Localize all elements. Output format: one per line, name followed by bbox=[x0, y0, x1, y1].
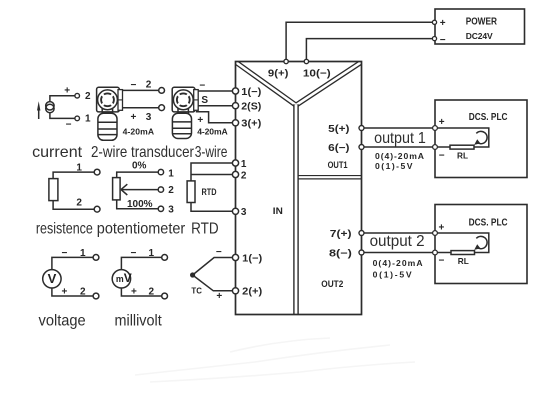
svg-text:+: + bbox=[439, 223, 445, 234]
svg-text:0%: 0% bbox=[132, 160, 147, 171]
svg-text:100%: 100% bbox=[127, 199, 153, 210]
svg-text:+: + bbox=[64, 85, 70, 96]
terminal 5(+) right edge bbox=[359, 126, 364, 131]
svg-text:1: 1 bbox=[241, 159, 247, 170]
svg-text:TC: TC bbox=[191, 285, 202, 295]
junction dot bbox=[190, 272, 195, 277]
terminal 3 bbox=[232, 208, 238, 214]
svg-text:4-20mA: 4-20mA bbox=[123, 127, 155, 137]
wire 8(-) to DCS2 bbox=[362, 252, 436, 254]
svg-text:RTD: RTD bbox=[202, 187, 217, 197]
terminal 1(-) top bbox=[232, 88, 238, 94]
wire V1 top bbox=[52, 257, 93, 269]
svg-text:output 2: output 2 bbox=[370, 233, 425, 250]
svg-text:IN: IN bbox=[273, 206, 283, 217]
wire TC to 1(-) bbox=[193, 258, 236, 276]
svg-text:+: + bbox=[216, 291, 222, 302]
transducer T2 (3-wire) bbox=[172, 87, 235, 138]
svg-text:output 1: output 1 bbox=[374, 130, 426, 147]
terminal 1 of mV1 bbox=[162, 255, 168, 261]
wire 9(+) to power + bbox=[286, 22, 433, 61]
terminal 2(S) bbox=[232, 103, 238, 109]
svg-text:+: + bbox=[440, 18, 446, 29]
terminal 2 of mV1 bbox=[162, 293, 168, 299]
svg-text:1: 1 bbox=[80, 248, 86, 259]
terminal 10(-) top edge bbox=[304, 59, 308, 63]
svg-text:0(4)-20mA: 0(4)-20mA bbox=[375, 151, 424, 161]
current direction arrow DCS2 bbox=[476, 236, 487, 248]
svg-text:+: + bbox=[131, 286, 137, 297]
current source CS1 bbox=[37, 93, 79, 120]
terminal 7(+) right edge bbox=[359, 231, 364, 236]
svg-text:3: 3 bbox=[168, 205, 174, 216]
wire RTD to terminal 2 bbox=[191, 174, 236, 176]
load loop wire in DCS1 bbox=[435, 128, 489, 147]
terminal + DCS2 bbox=[433, 231, 438, 236]
svg-text:RL: RL bbox=[457, 151, 468, 161]
wire 6(-) to DCS1 bbox=[362, 146, 436, 148]
svg-text:1: 1 bbox=[149, 248, 155, 259]
terminal block of T1 bbox=[118, 90, 123, 111]
svg-text:3: 3 bbox=[146, 112, 152, 123]
svg-text:1: 1 bbox=[85, 113, 91, 124]
svg-text:0(4)-20mA: 0(4)-20mA bbox=[373, 258, 423, 268]
terminal 1 of CS1 bbox=[75, 116, 80, 121]
svg-text:2: 2 bbox=[168, 185, 174, 196]
wire CS1 bottom bbox=[50, 113, 75, 119]
wire T2 to 1(-) bbox=[198, 90, 235, 92]
body square bbox=[172, 87, 195, 112]
svg-text:1: 1 bbox=[76, 163, 82, 174]
terminal 2 of V1 bbox=[93, 293, 99, 299]
svg-text:7(+): 7(+) bbox=[330, 229, 352, 240]
body square bbox=[97, 87, 120, 112]
wire 7(+) to DCS2 bbox=[362, 232, 436, 234]
wire T1 bottom bbox=[123, 107, 159, 109]
inner ring bbox=[101, 93, 114, 106]
svg-text:RTD: RTD bbox=[191, 221, 219, 238]
svg-text:DC24V: DC24V bbox=[466, 31, 493, 41]
svg-text:6(−): 6(−) bbox=[328, 143, 349, 154]
wire T1 top bbox=[123, 89, 159, 91]
svg-text:DCS. PLC: DCS. PLC bbox=[469, 112, 508, 123]
svg-text:1(−): 1(−) bbox=[242, 253, 262, 264]
wire 5(+) to DCS1 bbox=[362, 127, 436, 129]
wire R1 bottom bbox=[53, 201, 94, 210]
svg-text:+: + bbox=[439, 117, 445, 128]
svg-text:9(+): 9(+) bbox=[268, 68, 289, 79]
svg-text:2: 2 bbox=[241, 170, 247, 181]
svg-text:−: − bbox=[131, 248, 137, 259]
head circle bbox=[98, 90, 118, 110]
terminal 1 of V1 bbox=[93, 255, 99, 261]
svg-text:0(1)-5V: 0(1)-5V bbox=[373, 270, 412, 280]
svg-text:+: + bbox=[62, 286, 68, 297]
V divider inside isolator bbox=[233, 60, 364, 105]
svg-text:2: 2 bbox=[85, 91, 91, 102]
svg-text:−: − bbox=[62, 248, 68, 259]
terminal 1 of RP1 bbox=[158, 169, 163, 174]
svg-text:2: 2 bbox=[149, 286, 155, 297]
svg-text:DCS. PLC: DCS. PLC bbox=[469, 218, 508, 229]
terminal 8(-) right edge bbox=[359, 250, 364, 255]
svg-text:OUT2: OUT2 bbox=[321, 279, 343, 290]
svg-text:4-20mA: 4-20mA bbox=[197, 127, 228, 137]
current source circles bbox=[46, 102, 54, 110]
terminal - DCS2 bbox=[433, 250, 438, 255]
svg-text:RL: RL bbox=[458, 256, 469, 266]
terminal + DCS1 bbox=[433, 126, 438, 131]
transducer T1 (2-wire) bbox=[97, 87, 165, 140]
neck bbox=[178, 108, 188, 113]
terminal 1 of R1 bbox=[94, 169, 100, 175]
svg-text:voltage: voltage bbox=[39, 313, 86, 330]
isolator outline bbox=[236, 62, 362, 315]
terminal 9(+) top edge bbox=[284, 59, 288, 63]
wire T2 to 3(+) bbox=[196, 112, 236, 123]
terminal 6(-) right edge bbox=[359, 145, 364, 150]
arrow of current source bbox=[38, 109, 40, 119]
svg-text:−: − bbox=[66, 120, 72, 131]
svg-text:resistence: resistence bbox=[36, 221, 93, 238]
wiper arrow bbox=[121, 189, 158, 191]
terminal 2(+) bottom bbox=[232, 288, 238, 294]
load loop wire in DCS2 bbox=[435, 233, 489, 253]
svg-text:−: − bbox=[131, 80, 137, 91]
terminal 2 of RP1 bbox=[158, 187, 163, 192]
faint watermark remnants bbox=[135, 338, 415, 382]
svg-text:+: + bbox=[197, 115, 203, 126]
sensor capsule bbox=[172, 113, 191, 138]
voltmeter V1 bbox=[43, 255, 99, 299]
svg-text:S: S bbox=[201, 95, 208, 106]
svg-text:2(S): 2(S) bbox=[241, 102, 261, 113]
wire V1 bottom bbox=[52, 288, 93, 296]
svg-text:5(+): 5(+) bbox=[328, 124, 349, 135]
svg-text:−: − bbox=[216, 247, 222, 258]
svg-text:V: V bbox=[48, 271, 57, 286]
power supply box bbox=[435, 9, 525, 44]
terminal 1(-) bottom bbox=[232, 254, 238, 260]
terminal 3 of T1 bbox=[159, 105, 165, 111]
wire RP1 bottom bbox=[117, 200, 159, 209]
svg-text:3-wire: 3-wire bbox=[195, 144, 228, 161]
thermocouple TC bbox=[190, 258, 236, 291]
wire CS1 top bbox=[50, 96, 75, 102]
svg-text:2: 2 bbox=[146, 80, 152, 91]
svg-text:+: + bbox=[131, 112, 137, 123]
svg-text:2: 2 bbox=[76, 198, 82, 209]
wire 10(-) to power - bbox=[306, 39, 432, 62]
horizontal divider OUT1/OUT2 bbox=[296, 175, 362, 180]
svg-text:1: 1 bbox=[168, 168, 174, 179]
wire RTD to terminal 1 bbox=[191, 163, 236, 181]
resistor RTD bbox=[187, 163, 235, 211]
svg-text:10(−): 10(−) bbox=[303, 68, 331, 79]
wire RP1 top bbox=[117, 172, 159, 178]
vertical divider IN/OUT bbox=[293, 104, 299, 314]
terminal - DCS1 bbox=[433, 145, 438, 150]
wire R1 top bbox=[53, 172, 94, 179]
terminal 2 of T1 bbox=[159, 88, 165, 94]
svg-text:3: 3 bbox=[241, 207, 247, 218]
svg-text:millivolt: millivolt bbox=[115, 313, 163, 330]
svg-text:OUT1: OUT1 bbox=[328, 160, 349, 171]
potentiometer RP1 bbox=[113, 169, 164, 211]
current direction arrow DCS1 bbox=[476, 131, 487, 143]
svg-text:−: − bbox=[439, 256, 445, 267]
svg-text:current: current bbox=[32, 144, 83, 161]
wire RTD to terminal 3 bbox=[191, 203, 236, 212]
sensor capsule bbox=[98, 113, 117, 140]
wire T2 to 2(S) bbox=[198, 105, 235, 107]
svg-text:mV: mV bbox=[116, 271, 132, 285]
terminal 2 of R1 bbox=[94, 206, 100, 212]
resistor R1 (resistance input) bbox=[49, 169, 100, 212]
svg-text:POWER: POWER bbox=[466, 17, 498, 28]
svg-text:potentiometer: potentiometer bbox=[97, 221, 186, 238]
wire mV1 top bbox=[121, 257, 161, 269]
terminal 2 of CS1 bbox=[75, 93, 80, 98]
resistor RL (DCS1) bbox=[450, 145, 474, 149]
svg-text:8(−): 8(−) bbox=[329, 248, 352, 259]
svg-text:2: 2 bbox=[80, 286, 86, 297]
DCS.PLC box 2 bbox=[435, 205, 527, 284]
svg-text:−: − bbox=[439, 151, 445, 162]
svg-text:0(1)-5V: 0(1)-5V bbox=[375, 161, 413, 171]
terminal 1 bbox=[232, 160, 238, 166]
head circle bbox=[173, 90, 193, 110]
svg-text:1(−): 1(−) bbox=[241, 87, 261, 98]
svg-text:−: − bbox=[440, 35, 446, 46]
svg-text:2(+): 2(+) bbox=[242, 287, 262, 298]
terminal block of T2 bbox=[194, 90, 199, 111]
terminal - of power bbox=[432, 37, 436, 41]
wire mV1 bottom bbox=[121, 288, 161, 296]
terminal 3(+) bbox=[232, 120, 238, 126]
millivoltmeter mV1 bbox=[112, 255, 167, 299]
svg-text:2-wire transducer: 2-wire transducer bbox=[91, 144, 195, 161]
svg-text:−: − bbox=[199, 80, 205, 91]
DCS.PLC box 1 bbox=[435, 100, 527, 178]
terminal + of power bbox=[432, 20, 436, 24]
terminal 2 bbox=[232, 171, 238, 177]
resistor RL (DCS2) bbox=[451, 251, 475, 255]
inner ring bbox=[177, 93, 190, 106]
neck bbox=[102, 108, 112, 113]
wire TC to 2(+) bbox=[193, 275, 236, 291]
terminal 3 of RP1 bbox=[158, 206, 163, 211]
svg-text:3(+): 3(+) bbox=[241, 119, 261, 130]
